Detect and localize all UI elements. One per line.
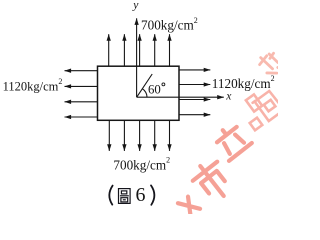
- arrow up 3: [139, 34, 141, 66]
- watermark char 市: [188, 156, 236, 205]
- arrow down 1: [108, 120, 110, 151]
- svg-text:700kg/cm2: 700kg/cm2: [141, 16, 198, 33]
- arrow down 3: [139, 120, 141, 151]
- svg-text:6: 6: [136, 184, 146, 206]
- arrow down 2: [123, 120, 125, 151]
- svg-text:1120kg/cm2: 1120kg/cm2: [212, 74, 275, 91]
- angle arc: [142, 89, 147, 98]
- svg-text:1120kg/cm2: 1120kg/cm2: [3, 77, 63, 93]
- watermark char 回-like right: [255, 90, 284, 121]
- arrow left 1: [65, 70, 98, 72]
- arrow up 2: [123, 34, 125, 66]
- caption left paren: [109, 186, 112, 205]
- arrow left 2: [65, 85, 98, 87]
- left arrows (4 left): [65, 71, 98, 117]
- arrow up 5: [169, 34, 171, 66]
- arrow right 1: [179, 69, 210, 71]
- caption ( 圖 6 ): [109, 184, 154, 206]
- x-axis: [137, 96, 224, 98]
- arrow down 4: [154, 120, 156, 151]
- watermark char small box left of 回: [246, 94, 262, 111]
- 60-degree inclined line: [137, 74, 153, 97]
- watermark small box lower-left of 回: [250, 118, 263, 131]
- stress element rectangle: [98, 66, 180, 120]
- watermark partial bottom-left: [178, 195, 200, 218]
- svg-text:y: y: [132, 0, 139, 12]
- watermark stroke group (pink scanned stamp): [178, 50, 285, 217]
- arrow left 4: [65, 116, 98, 118]
- watermark char 立: [212, 121, 252, 161]
- arrow down 5: [169, 120, 171, 151]
- arrow right 2: [179, 84, 210, 86]
- arrow up 1: [108, 34, 110, 66]
- y-axis: [136, 18, 138, 97]
- watermark char partial top-right corner: [257, 50, 286, 80]
- arrow right 4: [179, 114, 210, 116]
- arrow right 3: [179, 99, 210, 101]
- svg-text:x: x: [225, 89, 232, 102]
- caption right paren: [151, 185, 154, 204]
- svg-text:700kg/cm2: 700kg/cm2: [113, 156, 170, 173]
- glyph 圖 drawn as vector: [119, 189, 131, 204]
- degree mark: [162, 83, 165, 86]
- arrow left 3: [65, 101, 98, 103]
- arrow up 4: [154, 34, 156, 66]
- bottom arrows (5 down): [109, 120, 169, 151]
- svg-text:60: 60: [148, 82, 161, 96]
- right arrows (4 right): [179, 70, 210, 115]
- top arrows (5 up): [109, 34, 170, 66]
